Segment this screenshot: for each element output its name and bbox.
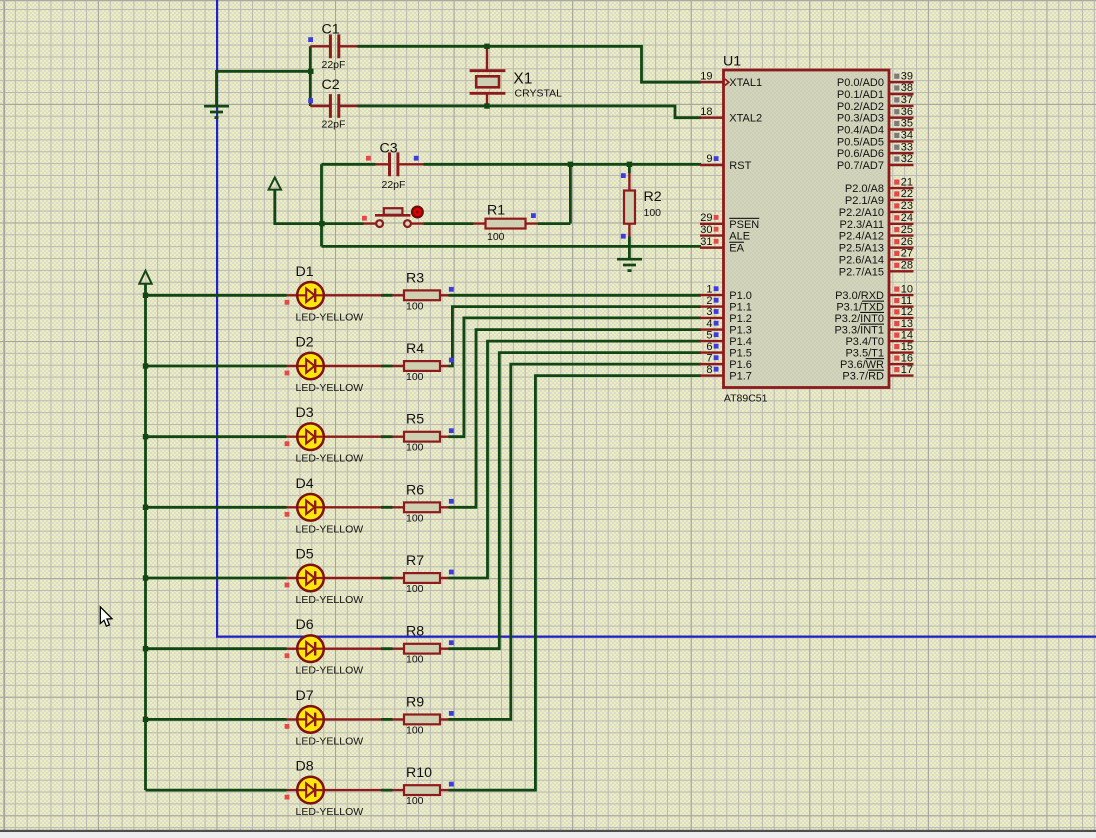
- svg-text:C1: C1: [322, 22, 340, 38]
- svg-text:R5: R5: [406, 412, 424, 428]
- svg-text:P3.0/RXD: P3.0/RXD: [835, 290, 884, 302]
- svg-text:P2.1/A9: P2.1/A9: [845, 195, 884, 207]
- svg-text:P0.6/AD6: P0.6/AD6: [837, 148, 884, 160]
- svg-text:36: 36: [901, 106, 913, 118]
- svg-text:13: 13: [901, 318, 913, 330]
- svg-text:P2.7/A15: P2.7/A15: [839, 266, 884, 278]
- svg-text:100: 100: [406, 442, 424, 454]
- svg-text:D7: D7: [296, 688, 314, 704]
- svg-text:P1.0: P1.0: [729, 290, 752, 302]
- svg-text:31: 31: [700, 236, 712, 248]
- svg-text:25: 25: [901, 224, 913, 236]
- svg-text:AT89C51: AT89C51: [724, 392, 768, 404]
- svg-text:8: 8: [706, 364, 712, 376]
- svg-text:19: 19: [700, 70, 712, 82]
- svg-text:2: 2: [706, 295, 712, 307]
- svg-text:P0.1/AD1: P0.1/AD1: [837, 89, 884, 101]
- svg-text:100: 100: [406, 795, 424, 807]
- svg-text:D8: D8: [296, 759, 314, 775]
- svg-text:R1: R1: [487, 202, 505, 218]
- svg-text:P1.4: P1.4: [729, 336, 752, 348]
- svg-text:P3.4/T0: P3.4/T0: [845, 336, 884, 348]
- svg-text:EA: EA: [729, 243, 744, 255]
- svg-text:C2: C2: [322, 77, 340, 93]
- svg-text:P1.2: P1.2: [729, 313, 752, 325]
- svg-text:P0.2/AD2: P0.2/AD2: [837, 101, 884, 113]
- svg-text:R4: R4: [406, 341, 424, 357]
- svg-text:D2: D2: [296, 335, 314, 351]
- svg-text:LED-YELLOW: LED-YELLOW: [296, 594, 364, 606]
- svg-text:R8: R8: [406, 624, 424, 640]
- svg-text:R10: R10: [406, 765, 432, 781]
- svg-text:4: 4: [706, 318, 712, 330]
- svg-text:23: 23: [901, 200, 913, 212]
- svg-text:21: 21: [901, 176, 913, 188]
- svg-text:3: 3: [706, 306, 712, 318]
- svg-text:P1.3: P1.3: [729, 325, 752, 337]
- svg-text:R9: R9: [406, 694, 424, 710]
- svg-text:100: 100: [406, 371, 424, 383]
- svg-text:P1.6: P1.6: [729, 359, 752, 371]
- svg-text:P3.5/T1: P3.5/T1: [845, 348, 884, 360]
- svg-text:P1.5: P1.5: [729, 348, 752, 360]
- svg-text:P2.6/A14: P2.6/A14: [839, 254, 884, 266]
- svg-text:32: 32: [901, 153, 913, 165]
- svg-text:9: 9: [706, 153, 712, 165]
- svg-text:P3.2/INT0: P3.2/INT0: [834, 313, 884, 325]
- svg-text:LED-YELLOW: LED-YELLOW: [296, 453, 364, 465]
- svg-text:100: 100: [487, 231, 505, 243]
- svg-text:LED-YELLOW: LED-YELLOW: [296, 665, 364, 677]
- svg-text:CRYSTAL: CRYSTAL: [515, 88, 563, 100]
- svg-text:P0.4/AD4: P0.4/AD4: [837, 125, 884, 137]
- svg-text:12: 12: [901, 306, 913, 318]
- svg-text:D3: D3: [296, 405, 314, 421]
- svg-text:LED-YELLOW: LED-YELLOW: [296, 382, 364, 394]
- svg-text:R2: R2: [644, 189, 662, 205]
- svg-text:100: 100: [406, 300, 424, 312]
- svg-text:P3.6/WR: P3.6/WR: [840, 359, 884, 371]
- svg-text:6: 6: [706, 341, 712, 353]
- svg-text:16: 16: [901, 352, 913, 364]
- svg-text:P0.3/AD3: P0.3/AD3: [837, 113, 884, 125]
- svg-text:P3.3/INT1: P3.3/INT1: [834, 325, 884, 337]
- svg-text:LED-YELLOW: LED-YELLOW: [296, 735, 364, 747]
- svg-text:11: 11: [901, 295, 912, 307]
- svg-text:P3.1/TXD: P3.1/TXD: [836, 302, 884, 314]
- svg-text:P2.5/A13: P2.5/A13: [839, 243, 884, 255]
- svg-text:18: 18: [700, 106, 712, 118]
- svg-text:P0.5/AD5: P0.5/AD5: [837, 136, 884, 148]
- svg-text:U1: U1: [723, 54, 741, 70]
- svg-text:39: 39: [901, 70, 913, 82]
- svg-text:P1.1: P1.1: [729, 302, 752, 314]
- svg-text:LED-YELLOW: LED-YELLOW: [296, 806, 364, 818]
- svg-text:D1: D1: [296, 264, 314, 280]
- svg-text:P1.7: P1.7: [729, 371, 752, 383]
- svg-text:7: 7: [706, 352, 712, 364]
- svg-text:17: 17: [901, 364, 913, 376]
- svg-text:28: 28: [901, 260, 913, 272]
- svg-text:P2.3/A11: P2.3/A11: [840, 219, 884, 231]
- svg-text:100: 100: [406, 512, 424, 524]
- svg-text:22: 22: [901, 188, 913, 200]
- svg-text:D6: D6: [296, 617, 314, 633]
- svg-text:35: 35: [901, 118, 913, 130]
- svg-text:30: 30: [700, 224, 712, 236]
- svg-text:C3: C3: [380, 141, 398, 157]
- svg-text:14: 14: [901, 329, 913, 341]
- svg-text:RST: RST: [729, 160, 751, 172]
- svg-text:26: 26: [901, 236, 913, 248]
- svg-text:P3.7/RD: P3.7/RD: [842, 371, 884, 383]
- svg-text:15: 15: [901, 341, 913, 353]
- svg-text:PSEN: PSEN: [729, 219, 759, 231]
- svg-text:22pF: 22pF: [322, 59, 346, 71]
- svg-text:P0.0/AD0: P0.0/AD0: [837, 77, 884, 89]
- svg-text:R7: R7: [406, 553, 424, 569]
- svg-text:38: 38: [901, 82, 913, 94]
- svg-text:ALE: ALE: [729, 231, 750, 243]
- svg-text:P2.2/A10: P2.2/A10: [839, 207, 884, 219]
- svg-text:P2.0/A8: P2.0/A8: [845, 183, 884, 195]
- svg-text:29: 29: [700, 212, 712, 224]
- svg-text:1: 1: [706, 283, 712, 295]
- svg-text:100: 100: [406, 654, 424, 666]
- svg-text:100: 100: [406, 724, 424, 736]
- svg-text:R6: R6: [406, 482, 424, 498]
- svg-text:33: 33: [901, 141, 913, 153]
- svg-text:D5: D5: [296, 547, 314, 563]
- svg-text:XTAL2: XTAL2: [729, 113, 762, 125]
- svg-text:5: 5: [706, 329, 712, 341]
- svg-text:LED-YELLOW: LED-YELLOW: [296, 523, 364, 535]
- svg-text:22pF: 22pF: [382, 179, 406, 191]
- svg-text:34: 34: [901, 130, 913, 142]
- svg-text:10: 10: [901, 283, 913, 295]
- svg-text:100: 100: [406, 583, 424, 595]
- svg-text:LED-YELLOW: LED-YELLOW: [296, 311, 364, 323]
- svg-text:37: 37: [901, 94, 913, 106]
- svg-text:XTAL1: XTAL1: [729, 77, 762, 89]
- svg-text:27: 27: [901, 248, 913, 260]
- svg-text:22pF: 22pF: [322, 119, 346, 131]
- svg-text:P0.7/AD7: P0.7/AD7: [837, 160, 884, 172]
- svg-text:X1: X1: [513, 71, 532, 88]
- svg-text:D4: D4: [296, 476, 314, 492]
- svg-text:R3: R3: [406, 270, 424, 286]
- svg-text:24: 24: [901, 212, 913, 224]
- svg-text:100: 100: [644, 207, 662, 219]
- svg-text:P2.4/A12: P2.4/A12: [839, 231, 884, 243]
